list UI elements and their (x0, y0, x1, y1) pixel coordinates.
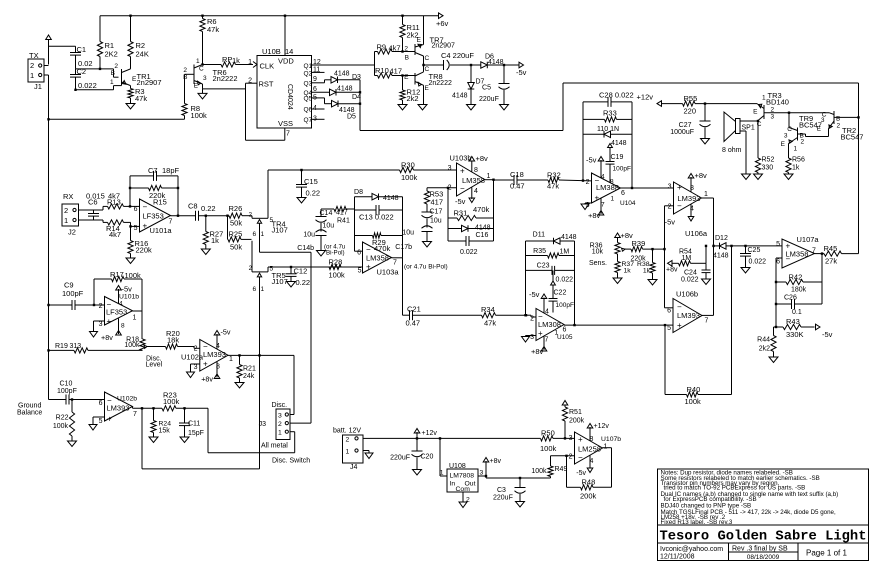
power arrow +6v (436, 13, 449, 28)
svg-text:7: 7 (705, 318, 709, 325)
svg-text:5: 5 (134, 225, 138, 232)
svg-text:08/18/2009: 08/18/2009 (747, 554, 780, 561)
svg-text:LF353: LF353 (143, 212, 164, 221)
power arrow -5v at U102a pin4 (214, 328, 231, 350)
svg-text:100pF: 100pF (62, 289, 84, 298)
ground below U108 (459, 502, 467, 508)
svg-text:B: B (183, 74, 187, 81)
svg-text:2: 2 (586, 179, 590, 186)
ground below R44 (769, 357, 778, 363)
op-amp U102a LM393 (181, 340, 233, 372)
svg-text:R42: R42 (789, 273, 803, 282)
resistor R22 100k (53, 400, 75, 442)
power arrow +8v (483, 458, 501, 477)
svg-text:-5v: -5v (455, 197, 466, 206)
ground below R12 (398, 105, 407, 111)
wire RST pin2 to VSS pin7 (203, 83, 291, 140)
resistor R28 (329, 258, 346, 280)
svg-text:0.22: 0.22 (296, 278, 311, 287)
svg-text:2n2222: 2n2222 (429, 80, 452, 87)
wire demod reference routing to audio right side (360, 83, 860, 254)
svg-text:R26: R26 (229, 204, 243, 213)
resistor R29 470k (355, 233, 403, 253)
svg-text:C4 220uF: C4 220uF (441, 51, 474, 60)
svg-text:10u: 10u (323, 223, 335, 230)
svg-text:+12v: +12v (594, 423, 610, 430)
svg-text:5: 5 (358, 268, 362, 275)
svg-text:4148: 4148 (713, 253, 729, 260)
speaker SP1 8 ohm (722, 112, 759, 174)
svg-text:0.22: 0.22 (201, 204, 216, 213)
svg-text:J3: J3 (259, 421, 267, 428)
wire TR4 gate drive from disc switch (260, 252, 312, 423)
capacitor C24 (681, 263, 711, 283)
capacitor C17 10u (422, 204, 443, 228)
svg-text:1k: 1k (624, 268, 632, 275)
svg-text:C14b: C14b (297, 245, 314, 252)
transistor TR3 BD140 (753, 91, 789, 128)
svg-text:−: − (786, 255, 791, 264)
wire TX pin1 long vertical down-left rail (47, 75, 49, 400)
svg-text:2: 2 (183, 67, 187, 74)
svg-text:C7: C7 (148, 166, 158, 175)
svg-text:2: 2 (278, 421, 282, 428)
svg-text:3: 3 (569, 435, 573, 442)
svg-text:180k: 180k (791, 287, 807, 294)
svg-text:18k: 18k (167, 336, 179, 345)
svg-text:U102b: U102b (117, 396, 137, 403)
svg-text:+8v: +8v (201, 375, 213, 384)
title block frame (658, 469, 869, 561)
resistor R20 18k (166, 329, 200, 349)
wire U106b output (702, 314, 714, 316)
svg-text:10u: 10u (303, 232, 315, 239)
svg-text:SP1: SP1 (742, 125, 755, 132)
svg-text:+8v: +8v (695, 171, 708, 180)
wire Q7 pin3 (312, 116, 325, 123)
wire C4 to D6 node (470, 64, 481, 66)
wire Q5 pin5 (312, 95, 332, 104)
ground below D7 (467, 105, 476, 111)
wire Q1 to R9/R10 splitter (374, 52, 376, 76)
ground below R24 (149, 437, 158, 443)
svg-text:-5v: -5v (665, 218, 676, 227)
svg-text:2k2: 2k2 (407, 94, 419, 103)
svg-text:330: 330 (762, 165, 774, 172)
svg-text:50k: 50k (230, 243, 242, 252)
svg-text:1: 1 (64, 216, 68, 225)
feedback network U103b: rails (448, 180, 494, 241)
resistor R12 (400, 74, 420, 104)
svg-text:+: + (677, 183, 682, 192)
svg-text:C: C (787, 126, 792, 133)
svg-text:U103a: U103a (377, 268, 400, 277)
capacitor C23 (526, 263, 575, 284)
transistor TR4 J107 sampling JFET (249, 170, 288, 252)
svg-text:+12v: +12v (422, 430, 438, 437)
svg-text:R55: R55 (684, 94, 698, 103)
svg-text:RX: RX (63, 192, 73, 201)
wire U107a pin6 net (775, 258, 782, 328)
svg-text:J2: J2 (68, 228, 76, 237)
diode D10 4148 (583, 131, 632, 147)
transistor TR8 2n2222 (404, 66, 452, 92)
power arrow -5v at U103b pin4 (455, 188, 475, 207)
svg-text:3: 3 (203, 75, 207, 82)
diode D11 4148 (526, 232, 577, 245)
power arrow +12v at U107b pin8 (587, 423, 609, 441)
wire C1/C2 junction to R1 and TR1 base (76, 68, 119, 78)
svg-text:R50: R50 (541, 429, 555, 438)
svg-text:Q6: Q6 (304, 107, 313, 114)
ground at U102b pin5 (89, 417, 105, 430)
svg-text:2n2907: 2n2907 (432, 43, 455, 50)
svg-text:C: C (425, 55, 430, 62)
op-amp U101b LF353 (99, 294, 140, 330)
ground below C20 (413, 470, 422, 476)
svg-text:C28 0.022: C28 0.022 (599, 91, 634, 100)
svg-text:U101b: U101b (119, 294, 139, 301)
svg-text:1: 1 (133, 315, 137, 322)
svg-text:0.022: 0.022 (749, 259, 767, 266)
svg-text:0.22: 0.22 (306, 189, 321, 198)
svg-text:3: 3 (821, 117, 825, 124)
capacitor C8 (188, 202, 229, 221)
connector J4 battery 12V (333, 428, 370, 472)
svg-text:47k: 47k (135, 94, 147, 103)
svg-text:R25: R25 (229, 230, 243, 239)
svg-text:100k: 100k (53, 423, 69, 430)
svg-text:batt. 12V: batt. 12V (333, 428, 361, 435)
power arrow -5v at U107b pin4 (576, 456, 593, 478)
resistor R19 3k3 (49, 343, 143, 353)
ground below R37 (613, 278, 622, 284)
svg-text:C18: C18 (510, 170, 524, 179)
resistor R50 100k (540, 429, 575, 454)
svg-text:3: 3 (448, 165, 452, 172)
diode D12 4148 (713, 235, 733, 260)
capacitor C15 (296, 170, 320, 198)
wire detector threshold node (732, 245, 783, 247)
svg-text:LM358: LM358 (366, 254, 389, 263)
svg-text:LF353: LF353 (106, 308, 127, 317)
wire Q4 pin6 (312, 86, 330, 93)
ground below R16 (126, 258, 135, 264)
ground below C17b (404, 242, 448, 271)
svg-text:0.47: 0.47 (510, 182, 525, 191)
svg-text:0.022: 0.022 (681, 277, 699, 284)
svg-text:100k: 100k (124, 342, 140, 349)
resistor R14 (106, 220, 140, 239)
svg-text:6: 6 (99, 400, 103, 407)
svg-text:5: 5 (99, 418, 103, 425)
svg-text:417: 417 (431, 198, 444, 207)
svg-text:1: 1 (261, 286, 265, 293)
resistor R27 (203, 216, 223, 249)
capacitor C2 (70, 67, 97, 90)
op-amp U104 LM388 (586, 173, 636, 209)
svg-text:J4: J4 (350, 464, 358, 471)
svg-text:C1: C1 (77, 45, 87, 54)
wire comparator outputs wired-OR (142, 408, 260, 469)
capacitor C21 (406, 305, 482, 328)
svg-text:Level: Level (146, 362, 163, 369)
svg-text:+: + (460, 167, 465, 176)
svg-text:U104: U104 (620, 200, 636, 207)
svg-text:1: 1 (762, 95, 766, 102)
svg-text:8 ohm: 8 ohm (722, 147, 742, 154)
svg-text:Q1: Q1 (304, 63, 313, 70)
svg-text:Sens.: Sens. (589, 260, 607, 267)
power arrow -5v via R43 (816, 324, 833, 339)
resistor R31 470k (448, 205, 494, 221)
svg-text:3: 3 (668, 184, 672, 191)
svg-text:100k: 100k (540, 444, 557, 453)
svg-text:1: 1 (30, 71, 34, 80)
svg-text:1k: 1k (792, 165, 800, 172)
power arrow -5v at U105 pin4 (529, 290, 547, 313)
svg-text:2: 2 (346, 437, 350, 444)
wire U106a pin2 threshold rail (663, 206, 673, 308)
svg-text:100k: 100k (329, 271, 346, 280)
resistor R11 (400, 16, 420, 53)
svg-text:2: 2 (668, 204, 672, 211)
capacitor C11 15pF (179, 408, 204, 437)
svg-text:Bi-Pol): Bi-Pol) (326, 250, 345, 257)
capacitor C4 220uF (441, 51, 474, 70)
svg-text:R28: R28 (329, 258, 343, 267)
wire VDD pin14 (284, 16, 286, 56)
svg-text:2: 2 (64, 206, 68, 215)
op-amp U105 LM308 (530, 309, 573, 344)
svg-text:Rev .3 final by SB: Rev .3 final by SB (732, 546, 788, 553)
svg-text:+: + (143, 222, 148, 231)
svg-text:1: 1 (261, 231, 265, 238)
svg-text:4: 4 (474, 188, 478, 195)
capacitor C27 1000uF (670, 104, 710, 139)
svg-text:47k: 47k (207, 25, 219, 34)
svg-text:100k: 100k (531, 468, 547, 475)
svg-text:2: 2 (404, 46, 408, 53)
diode D5 4148 (332, 100, 361, 120)
svg-text:VSS: VSS (278, 119, 293, 128)
resistor R35 1M (526, 248, 575, 258)
svg-text:4: 4 (601, 174, 605, 181)
svg-text:R35: R35 (533, 248, 546, 255)
svg-text:0.47: 0.47 (406, 319, 421, 328)
svg-text:4: 4 (545, 309, 549, 316)
svg-text:RP: RP (222, 55, 232, 64)
capacitor C13 (355, 205, 403, 222)
svg-text:C: C (425, 66, 430, 73)
svg-text:R10: R10 (375, 66, 389, 75)
svg-text:-5v: -5v (529, 290, 540, 299)
svg-text:+: + (107, 415, 112, 424)
power arrow +8v at U103b pin8 (469, 154, 488, 172)
svg-text:4148: 4148 (561, 234, 577, 241)
resistor R15 220k (130, 185, 178, 206)
svg-text:-5v: -5v (576, 470, 586, 477)
svg-text:R22: R22 (56, 415, 69, 422)
svg-text:1: 1 (487, 173, 491, 180)
svg-text:2: 2 (194, 346, 198, 353)
capacitor C9 100pF (49, 281, 105, 311)
ground at J4 pin1 (365, 453, 373, 459)
svg-text:U106b: U106b (676, 290, 698, 299)
wire Q6 pin4 (312, 105, 325, 112)
svg-text:330K: 330K (786, 330, 804, 339)
wire U103a output to C21 (392, 258, 410, 315)
svg-text:1: 1 (248, 59, 252, 66)
wire U103b pin2 net (427, 187, 457, 189)
svg-text:+8v: +8v (101, 333, 113, 342)
potentiometer R36 10k Sens. (589, 231, 633, 267)
svg-text:3: 3 (278, 413, 282, 420)
svg-text:R43: R43 (786, 317, 800, 326)
resistor R52 330 (755, 157, 774, 175)
svg-text:C16: C16 (476, 232, 489, 239)
svg-text:C3: C3 (497, 487, 506, 494)
svg-text:+: + (107, 317, 112, 326)
label Ground Balance (17, 403, 42, 417)
svg-text:2: 2 (30, 61, 34, 70)
ground below R22 (68, 441, 77, 447)
power arrow +8v at U106a pin8 (688, 171, 707, 192)
svg-text:LM393: LM393 (107, 404, 130, 413)
wire diode summing bus (359, 80, 361, 131)
svg-text:1: 1 (794, 146, 798, 153)
wire U101a feedback rails (129, 176, 179, 217)
resistor R6 (200, 16, 219, 65)
svg-text:R45: R45 (824, 244, 838, 253)
svg-text:100k: 100k (191, 111, 208, 120)
svg-text:R19: R19 (55, 343, 68, 350)
ground at U104 pin3 (581, 203, 592, 210)
svg-text:100pF: 100pF (556, 302, 574, 309)
svg-text:100k: 100k (685, 397, 702, 406)
power arrow +12v (414, 429, 437, 439)
svg-text:+8v: +8v (588, 211, 601, 220)
capacitor C14 10u (316, 209, 335, 232)
svg-text:Balance: Balance (17, 410, 42, 417)
transistor TR6 2n2222 (183, 58, 237, 90)
svg-text:R48: R48 (582, 478, 596, 487)
svg-text:220uF: 220uF (493, 495, 513, 502)
svg-text:2n2907: 2n2907 (137, 78, 162, 87)
wire U107b output (603, 447, 612, 449)
svg-text:+: + (677, 321, 682, 330)
resistor R53 417 (424, 188, 443, 207)
svg-text:3: 3 (194, 364, 198, 371)
svg-text:R49: R49 (555, 466, 568, 473)
svg-text:+12v: +12v (637, 93, 654, 102)
svg-text:C22: C22 (554, 290, 567, 297)
svg-text:100pF: 100pF (57, 388, 77, 395)
svg-text:4148: 4148 (334, 71, 350, 78)
resistor R38 (637, 249, 655, 279)
wire U102b output node (133, 407, 163, 410)
svg-text:C27: C27 (679, 122, 692, 129)
ground below C27 (701, 139, 710, 145)
svg-text:+: + (366, 263, 371, 272)
transistor TR9 BC547 (781, 113, 829, 153)
ground at U101b pin3 (90, 321, 105, 337)
svg-text:0.022: 0.022 (556, 277, 574, 284)
capacitor C18 (510, 170, 548, 191)
svg-text:CLK: CLK (260, 62, 275, 71)
wire top supply rail +6v (100, 15, 439, 17)
power arrow +8v at U105 pin7 (531, 337, 547, 357)
svg-text:U10B: U10B (262, 47, 281, 56)
ground below R27 (201, 249, 210, 255)
svg-text:200k: 200k (569, 418, 585, 425)
resistor R34 (481, 305, 536, 328)
svg-text:3: 3 (99, 321, 103, 328)
svg-text:4148: 4148 (452, 93, 468, 100)
svg-text:27k: 27k (825, 257, 837, 266)
transistor TR1 2n2907 (110, 63, 162, 87)
svg-text:7: 7 (133, 411, 137, 418)
resistor R39 220k (631, 239, 665, 263)
resistor R17 100k feedback (94, 270, 142, 312)
wire Q2 pin11 (312, 67, 325, 74)
svg-text:4148: 4148 (383, 195, 399, 202)
ground below speaker (742, 174, 751, 180)
wire U101a output (171, 215, 196, 217)
diode D8 4148 (354, 189, 402, 202)
svg-text:15k: 15k (159, 428, 171, 435)
svg-text:0.022: 0.022 (460, 249, 478, 256)
svg-text:2n2222: 2n2222 (213, 74, 238, 83)
capacitor C20 220uF (390, 438, 433, 469)
wire demod signal line (268, 169, 457, 171)
svg-text:+8v: +8v (666, 267, 678, 274)
svg-text:1: 1 (440, 470, 444, 477)
svg-text:C20: C20 (421, 454, 434, 461)
svg-text:200k: 200k (580, 492, 597, 501)
op-amp U102b LM393 (99, 392, 138, 425)
svg-text:7: 7 (286, 131, 290, 138)
svg-text:6: 6 (667, 308, 671, 315)
resistor R1 (97, 16, 117, 69)
svg-text:-5v: -5v (221, 328, 231, 337)
svg-text:2: 2 (569, 454, 573, 461)
svg-text:4: 4 (119, 301, 123, 308)
feedback U104: rails (583, 102, 633, 189)
svg-text:4148: 4148 (611, 140, 627, 147)
svg-text:417: 417 (390, 67, 403, 76)
svg-text:14: 14 (285, 47, 293, 56)
svg-text:U106a: U106a (685, 229, 708, 238)
svg-text:7: 7 (545, 337, 549, 344)
ground at U105 pin3 (522, 336, 537, 343)
svg-text:E: E (753, 109, 758, 116)
wire diode tap to C19 (608, 144, 613, 162)
svg-text:C24: C24 (684, 270, 697, 277)
capacitor C1 (70, 45, 93, 69)
svg-text:100pF: 100pF (613, 166, 631, 173)
ground below C25 (741, 268, 750, 274)
svg-text:2: 2 (99, 303, 103, 310)
svg-text:2K2: 2K2 (105, 50, 118, 59)
svg-text:100k: 100k (163, 397, 180, 406)
svg-text:All metal: All metal (261, 443, 288, 450)
svg-text:4k7: 4k7 (109, 230, 121, 239)
connector J3 disc switch (259, 402, 311, 465)
resistor R41 417 (320, 206, 355, 224)
svg-text:1k: 1k (643, 268, 651, 275)
resistor R32 (547, 171, 592, 191)
